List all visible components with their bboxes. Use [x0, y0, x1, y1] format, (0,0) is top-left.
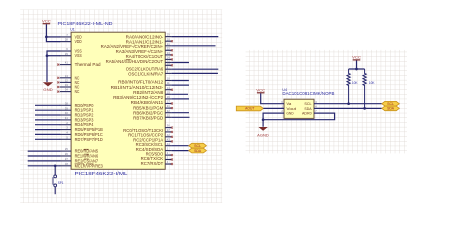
pin stub pin RC2 [165, 136, 171, 138]
svg-text:DAC101C081CIMK/NOPB: DAC101C081CIMK/NOPB [282, 91, 334, 96]
svg-text:PIC18F46K22-I/ML: PIC18F46K22-I/ML [75, 171, 129, 176]
junction pull-up rail [355, 68, 358, 71]
svg-text:RC7/RX/DT: RC7/RX/DT [141, 161, 164, 166]
IC U1 PIC18F46K22 body [71, 32, 165, 169]
svg-text:SP1: SP1 [58, 181, 64, 185]
overline on SS token of RA5 label [126, 58, 131, 60]
pin stub pin RC7 [165, 163, 171, 165]
junction R2 on SDA [363, 107, 366, 110]
pin 39 RD1/PSP1 stub [60, 109, 71, 111]
wire net OSC1/CLKIN [172, 72, 218, 74]
svg-text:AOUT: AOUT [245, 107, 254, 111]
wire net RB0 [172, 80, 189, 82]
junction R1 on SCL [347, 102, 350, 105]
pin stub pin RA3 [165, 49, 171, 51]
wire net SDA DAC side [314, 107, 382, 109]
pin 29 VSS stub [60, 55, 71, 57]
pin stub net RA2 [165, 45, 171, 47]
pin stub net SDA [165, 150, 171, 152]
port SDA [189, 148, 207, 153]
svg-text:OSC1/CLKIN/RA7: OSC1/CLKIN/RA7 [128, 72, 164, 77]
wire VCC to VDD pin 28 [46, 24, 60, 41]
wire net RB1 [172, 84, 189, 86]
wire net RD6 [35, 133, 60, 135]
wire net RE2 [28, 160, 61, 162]
svg-text:U1: U1 [70, 28, 75, 32]
wire VCC branch to VDD pin 7 [46, 36, 60, 38]
power symbol VCC3 VCC [352, 56, 361, 60]
pin stub pin RC0 [165, 127, 171, 129]
port SDA [382, 106, 400, 111]
pin stub net SCL [165, 145, 171, 147]
pin 38 RD0/PSP0 stub [60, 104, 71, 106]
wire GND pin to AGND [263, 113, 284, 127]
svg-text:VCC: VCC [42, 19, 51, 23]
wire VSS pin 6 to ground [47, 51, 60, 82]
wire net SCL DAC side [314, 103, 382, 105]
pin 4 RD6/PSP6/P1C stub [60, 133, 71, 135]
pin stub pin RC3 [165, 140, 171, 142]
pin 40 RD2/PSP2 stub [60, 114, 71, 116]
pin stub net RB1 [165, 84, 171, 86]
power symbol VCC2 VCC [256, 89, 265, 93]
pin stub net RB7 [165, 116, 171, 118]
pin stub pin RC5 [165, 154, 171, 156]
junction AGND net [262, 118, 265, 121]
pin stub net RB0 [165, 80, 171, 82]
svg-text:ADR0: ADR0 [302, 111, 312, 116]
port SCL [382, 101, 400, 106]
svg-text:VCC: VCC [256, 89, 265, 93]
pin 26 RE1/WR/AN6 stub [60, 155, 71, 157]
port SCL [189, 143, 207, 148]
wire net MCLR [28, 165, 61, 167]
pin 25 RE0/RD/AN5 stub [60, 150, 71, 152]
active-low overlines on RE/MCLR pin names [84, 148, 89, 150]
power symbol VCC1 VCC [42, 19, 51, 23]
pin 12 NC stub [60, 81, 71, 83]
wire net RD5 [35, 129, 60, 131]
svg-text:10K: 10K [369, 81, 375, 85]
wire net SCL [172, 145, 189, 147]
wire net RB4 [172, 98, 189, 100]
wire net SDA [172, 150, 189, 152]
wire net RB3 [172, 93, 188, 95]
pin 3 RD5/PSP5/P1B stub [60, 129, 71, 131]
svg-text:VSS: VSS [75, 53, 82, 58]
wire pull-up top rail [349, 68, 365, 70]
wire net RD1 [35, 109, 60, 111]
junction VDD node [45, 36, 48, 39]
wire VCC stem to rail [356, 61, 358, 70]
resistor R2 10K [363, 69, 375, 108]
pin 18 MCLR/VPP/RE3 stub [60, 165, 71, 167]
svg-text:GND: GND [43, 88, 53, 92]
wire net RB6 [172, 112, 189, 114]
svg-text:NC: NC [75, 89, 80, 94]
svg-text:PIC18F46K22-I-ML-ND: PIC18F46K22-I-ML-ND [58, 21, 113, 26]
resistor R1 10K [347, 69, 358, 104]
pin stub pin RC1 [165, 131, 171, 133]
pin 27 RE2/CS/AN7 stub [60, 160, 71, 162]
svg-text:Thermal Pad: Thermal Pad [75, 62, 102, 67]
pin stub pin RA4 [165, 54, 171, 56]
svg-text:RB7/KBI3/PGD: RB7/KBI3/PGD [133, 116, 163, 121]
wire net RD0 [35, 104, 60, 106]
pin stub net OSC2/CLKOUT [165, 68, 171, 70]
svg-text:SCL: SCL [194, 144, 201, 148]
pin stub pin RB2 [165, 89, 171, 91]
pin stub net RB6 [165, 112, 171, 114]
pin stub pin RB6 [165, 107, 171, 109]
wire ADR0 return to AGND [263, 113, 335, 120]
wire net RD2 [35, 114, 60, 116]
pin stub pin RB5 [165, 103, 171, 105]
pin 6 VSS stub [60, 50, 71, 52]
wire net RA5/AN4 [172, 62, 189, 64]
svg-text:AGND: AGND [257, 133, 269, 137]
pin 13 NC stub [60, 77, 71, 79]
svg-text:10K: 10K [352, 81, 358, 85]
svg-text:SDA: SDA [387, 107, 395, 111]
pin stub pin OSC2 [165, 64, 171, 66]
junction VSS node [46, 54, 49, 57]
port AOUT [236, 106, 263, 111]
pin stub pin RA5 [165, 58, 171, 60]
pin 5 RD7/PSP7/P1D stub [60, 138, 71, 140]
left sheet grid [20, 10, 222, 203]
svg-text:SDA: SDA [194, 149, 202, 153]
wire net RE1 [28, 155, 61, 157]
svg-text:VDD: VDD [75, 39, 82, 44]
ground GND power symbol [43, 82, 53, 92]
right sheet grid [246, 50, 407, 153]
switch SP1 pushbutton [53, 166, 64, 194]
wire VCC to Va pin [261, 93, 284, 103]
svg-text:RA5/AN4/SS/HLVDIN/C2OUT: RA5/AN4/SS/HLVDIN/C2OUT [106, 59, 164, 64]
wire net RD7 [35, 138, 60, 140]
wire net RE0 [28, 150, 61, 152]
junction MCLR SP1 node [54, 164, 57, 167]
pin stub pin RC6 [165, 159, 171, 161]
wire net RA0 [172, 36, 219, 38]
wire net OSC2/CLKOUT [172, 68, 219, 70]
pin stub net OSC1/CLKIN [165, 72, 171, 74]
pin 41 RD3/PSP3 stub [60, 119, 71, 121]
wire net RB7 [172, 116, 190, 118]
wire net RD3 [35, 119, 60, 121]
ground AGND power symbol [257, 127, 269, 137]
svg-text:SCL: SCL [387, 102, 394, 106]
wire net RD4 [35, 124, 60, 126]
pin stub net RA0 [165, 36, 171, 38]
pin 28 VDD stub [60, 41, 71, 43]
wire AOUT port to Vout pin [263, 107, 284, 109]
pin 2 RD4/PSP4 stub [60, 124, 71, 126]
pin stub net RB4 [165, 98, 171, 100]
pin stub net RA5/AN4 [165, 62, 171, 64]
svg-text:RD7/PSP7/P1D: RD7/PSP7/P1D [75, 137, 103, 142]
IC U4 DAC101C081 body [284, 99, 314, 118]
pin 34 NC stub [60, 91, 71, 93]
svg-text:GND: GND [286, 111, 293, 116]
svg-text:VCC: VCC [352, 56, 361, 60]
pin stub pin RA1 [165, 40, 171, 42]
pin 33 NC stub [60, 86, 71, 88]
wire net RA2 [172, 45, 216, 47]
pin 7 VDD stub [60, 36, 71, 38]
wire VSS pin 29 branch [47, 55, 60, 57]
pin stub net RB3 [165, 93, 171, 95]
pin 41 Thermal Pad stub [60, 64, 71, 66]
